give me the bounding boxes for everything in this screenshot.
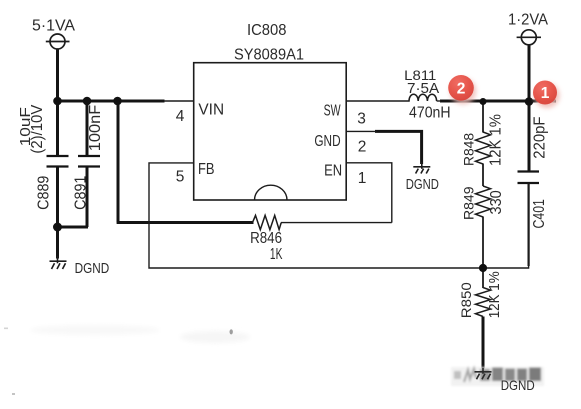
svg-text:4: 4 — [176, 108, 185, 125]
svg-text:2: 2 — [358, 139, 367, 156]
svg-text:1: 1 — [358, 170, 367, 187]
svg-text:DGND: DGND — [75, 260, 110, 277]
svg-text:C401: C401 — [531, 199, 548, 228]
svg-text:5: 5 — [176, 169, 185, 186]
svg-text:C889: C889 — [36, 176, 53, 210]
svg-text:3: 3 — [357, 111, 366, 128]
svg-text:EN: EN — [324, 163, 342, 180]
svg-text:R850: R850 — [458, 282, 474, 318]
svg-text:12K 1%: 12K 1% — [488, 114, 505, 166]
svg-text:2: 2 — [457, 81, 466, 98]
svg-text:DGND: DGND — [501, 377, 535, 393]
svg-text:7·5A: 7·5A — [407, 81, 440, 97]
svg-text:12K 1%: 12K 1% — [486, 271, 503, 318]
svg-text:R849: R849 — [461, 186, 477, 220]
svg-text:100nF: 100nF — [87, 104, 104, 151]
svg-text:5·1VA: 5·1VA — [32, 18, 75, 35]
svg-text:DGND: DGND — [406, 176, 439, 193]
svg-text:GND: GND — [314, 133, 340, 150]
svg-text:1·2VA: 1·2VA — [508, 11, 548, 28]
svg-text:VIN: VIN — [198, 102, 224, 119]
svg-text:IC808: IC808 — [247, 22, 287, 39]
svg-text:R846: R846 — [250, 230, 282, 247]
svg-text:R848: R848 — [461, 133, 477, 166]
svg-text:C891: C891 — [72, 176, 89, 210]
svg-text:FB: FB — [198, 161, 215, 178]
svg-text:SW: SW — [324, 102, 342, 119]
svg-text:470nH: 470nH — [409, 105, 451, 122]
svg-text:220pF: 220pF — [532, 116, 549, 158]
svg-text:330: 330 — [488, 190, 505, 214]
svg-text:(2)/10V: (2)/10V — [29, 104, 46, 153]
svg-text:SY8089A1: SY8089A1 — [234, 47, 304, 64]
svg-text:1: 1 — [541, 85, 550, 102]
svg-text:1K: 1K — [270, 246, 283, 263]
